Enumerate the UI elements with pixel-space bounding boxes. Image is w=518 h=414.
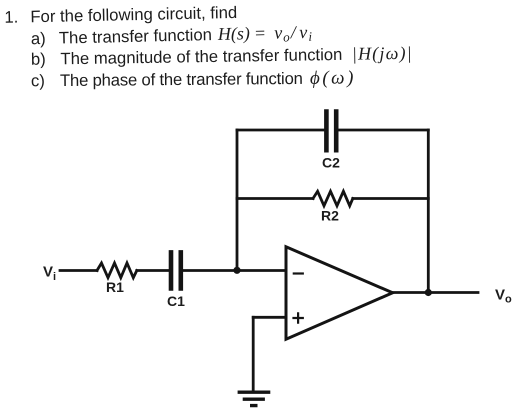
resistor R2: [313, 191, 353, 206]
problem text line a: [31, 22, 313, 50]
wire top branch right of C2: [339, 129, 429, 132]
wire feedback right vertical: [427, 130, 430, 293]
problem text line 1: [4, 3, 413, 91]
op-amp minus sign: [294, 272, 303, 274]
wire noninverting input: [253, 316, 286, 319]
svg-text:The magnitude of the transfer: The magnitude of the transfer function: [60, 45, 342, 68]
svg-text:b): b): [31, 50, 46, 69]
op-amp plus sign: [294, 313, 303, 322]
problem text line b: [31, 43, 413, 70]
op-amp U1: [286, 247, 393, 339]
resistor R1: [97, 263, 137, 278]
svg-text:Vo: Vo: [495, 286, 512, 305]
wire Vi to R1: [60, 269, 97, 272]
wire top branch left of C2: [237, 129, 324, 132]
problem text line c: [31, 67, 356, 91]
svg-text:The phase of the transfer func: The phase of the transfer function: [60, 69, 303, 90]
svg-text:R2: R2: [321, 208, 339, 224]
capacitor C1: [171, 252, 181, 288]
node output junction: [425, 289, 432, 296]
wire op-amp output: [393, 291, 478, 294]
wire R2 branch left: [237, 197, 313, 200]
svg-text:The transfer function: The transfer function: [59, 25, 212, 47]
svg-text:Vi: Vi: [43, 264, 56, 283]
node inverting input junction: [233, 267, 240, 274]
svg-text:C2: C2: [322, 155, 340, 171]
wire R2 branch right: [353, 197, 429, 200]
wire feedback left vertical: [236, 130, 239, 271]
wire R1 to C1: [137, 269, 169, 272]
svg-text:H(s)=vo/vi: H(s)=vo/vi: [217, 22, 313, 46]
svg-text:C1: C1: [167, 293, 185, 309]
svg-text:ϕ(ω): ϕ(ω): [310, 67, 356, 88]
wire to ground: [252, 317, 255, 391]
svg-text:For the following circuit, fin: For the following circuit, find: [30, 3, 237, 26]
ground: [239, 392, 268, 405]
svg-text:a): a): [31, 29, 46, 48]
svg-text:|H(jω)|: |H(jω)|: [352, 43, 413, 65]
svg-text:c): c): [31, 71, 45, 90]
capacitor C2: [326, 112, 336, 151]
svg-text:R1: R1: [106, 279, 124, 295]
svg-text:1.: 1.: [4, 8, 18, 27]
wire C1 to op-amp inverting input: [183, 269, 286, 272]
